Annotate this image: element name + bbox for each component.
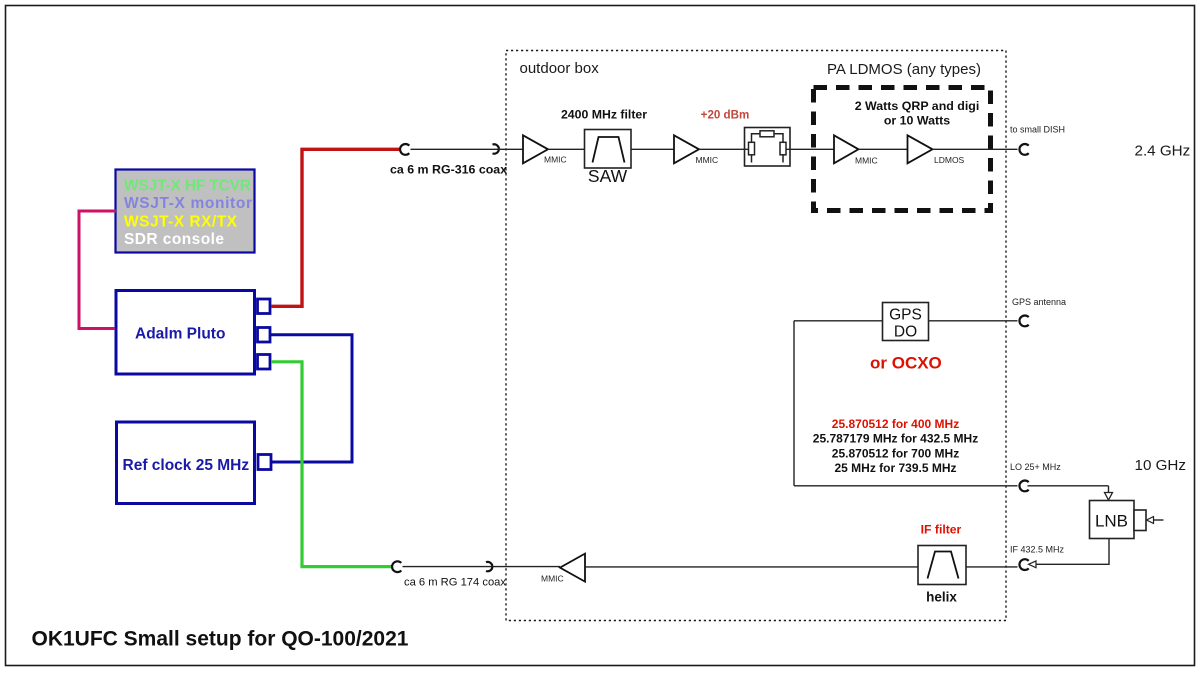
svg-text:LDMOS: LDMOS xyxy=(934,155,965,165)
svg-text:DO: DO xyxy=(894,324,917,341)
svg-text:25 MHz for 739.5 MHz: 25 MHz for 739.5 MHz xyxy=(834,461,956,475)
svg-text:outdoor box: outdoor box xyxy=(520,60,600,77)
svg-text:SAW: SAW xyxy=(588,166,628,186)
svg-text:IF filter: IF filter xyxy=(921,523,962,537)
svg-text:MMIC: MMIC xyxy=(696,155,719,165)
svg-text:25.787179 MHz for 432.5 MHz: 25.787179 MHz for 432.5 MHz xyxy=(813,432,978,446)
svg-text:WSJT-X monitor: WSJT-X monitor xyxy=(124,195,252,212)
svg-text:2 Watts QRP and digi: 2 Watts QRP and digi xyxy=(855,99,980,113)
svg-text:2400 MHz filter: 2400 MHz filter xyxy=(561,108,647,122)
svg-text:or 10 Watts: or 10 Watts xyxy=(884,114,950,128)
svg-text:WSJT-X HF TCVR: WSJT-X HF TCVR xyxy=(124,177,251,194)
svg-text:ca 6 m RG 174 coax: ca 6 m RG 174 coax xyxy=(404,577,506,589)
svg-text:Ref clock 25 MHz: Ref clock 25 MHz xyxy=(123,457,250,474)
svg-text:25.870512 for 700 MHz: 25.870512 for 700 MHz xyxy=(832,446,959,460)
svg-text:LO 25+ MHz: LO 25+ MHz xyxy=(1010,462,1061,472)
svg-text:25.870512 for 400 MHz: 25.870512 for 400 MHz xyxy=(832,417,959,431)
svg-text:LNB: LNB xyxy=(1095,512,1128,531)
svg-text:+20 dBm: +20 dBm xyxy=(701,109,750,122)
svg-text:MMIC: MMIC xyxy=(544,155,567,165)
svg-text:GPS: GPS xyxy=(889,307,922,324)
svg-text:2.4 GHz: 2.4 GHz xyxy=(1135,143,1191,160)
svg-text:IF 432.5 MHz: IF 432.5 MHz xyxy=(1010,545,1065,555)
svg-text:PA LDMOS (any types): PA LDMOS (any types) xyxy=(827,61,981,78)
svg-text:OK1UFC Small setup for QO-100/: OK1UFC Small setup for QO-100/2021 xyxy=(32,628,409,651)
svg-text:or OCXO: or OCXO xyxy=(870,354,942,373)
svg-text:MMIC: MMIC xyxy=(541,574,564,584)
svg-text:Adalm Pluto: Adalm Pluto xyxy=(135,326,225,343)
svg-text:SDR console: SDR console xyxy=(124,231,224,248)
svg-text:WSJT-X RX/TX: WSJT-X RX/TX xyxy=(124,214,238,231)
svg-text:to small DISH: to small DISH xyxy=(1010,125,1065,135)
svg-text:GPS antenna: GPS antenna xyxy=(1012,297,1066,307)
svg-text:MMIC: MMIC xyxy=(855,156,878,166)
svg-text:helix: helix xyxy=(926,590,957,605)
svg-text:ca 6 m RG-316 coax: ca 6 m RG-316 coax xyxy=(390,163,507,177)
svg-text:10 GHz: 10 GHz xyxy=(1135,457,1187,474)
